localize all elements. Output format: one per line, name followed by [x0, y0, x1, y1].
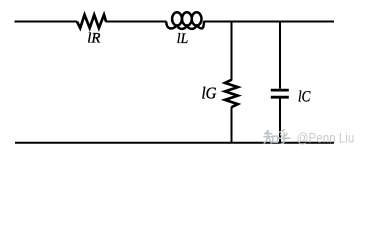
- svg-text:lG: lG: [202, 84, 217, 103]
- svg-text:lL: lL: [177, 31, 188, 47]
- svg-text:lC: lC: [298, 87, 311, 106]
- svg-text:@Penn Liu: @Penn Liu: [297, 131, 355, 146]
- svg-text:lR: lR: [87, 31, 100, 47]
